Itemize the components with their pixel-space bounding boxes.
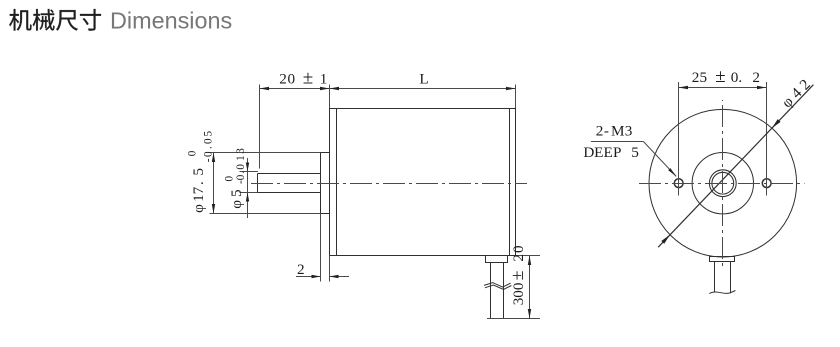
- arrow dia17.5 top: [212, 153, 215, 163]
- dim L right extension line: [515, 85, 517, 109]
- dim 25+-0.2 right extension line: [766, 82, 768, 196]
- svg-text:φ17.5: φ17.5: [190, 168, 207, 213]
- title CJK 机械尺寸: [9, 9, 101, 31]
- dim 20+-1 dimension line: [260, 88, 330, 90]
- front view arrowheads: [661, 86, 780, 244]
- front cable right edge: [730, 262, 732, 294]
- dia42 diagonal leader line: [658, 85, 813, 248]
- dia17.5 bottom extension line: [210, 213, 321, 215]
- dia17.5 dimension line: [213, 153, 215, 214]
- shaft ring inner: [712, 172, 734, 194]
- side cable break mark upper: [484, 283, 511, 288]
- dim 20+-1 left extension line: [259, 85, 261, 169]
- shaft ring outer: [709, 170, 736, 197]
- svg-text:-0.013: -0.013: [235, 148, 247, 184]
- side cable connector block: [486, 256, 508, 263]
- dim 2 left extension line: [320, 214, 322, 282]
- dia5 dimension line: [247, 158, 249, 218]
- svg-text:2: 2: [297, 261, 305, 278]
- svg-text:Dimensions: Dimensions: [110, 8, 232, 34]
- arrow dia5 top outside: [246, 163, 249, 172]
- side view center line: [251, 183, 527, 185]
- boss bottom edge: [321, 213, 330, 215]
- dim 300+-20 bottom extension line and cable end: [487, 318, 540, 320]
- dim 25+-0.2 dimension line: [679, 87, 767, 89]
- svg-text:-0.05: -0.05: [203, 130, 215, 162]
- svg-text:0: 0: [186, 150, 198, 156]
- dia5 bottom extension line: [240, 192, 259, 194]
- front cable break wave: [709, 291, 735, 294]
- arrow 300+-20 top: [528, 256, 531, 266]
- shaft bottom line: [258, 192, 321, 194]
- arrow L left: [330, 87, 340, 90]
- right M3 hole: [762, 179, 771, 188]
- svg-text:300±20: 300±20: [507, 245, 527, 305]
- arrow dia17.5 bottom: [212, 204, 215, 214]
- arrow 25+-0.2 left: [679, 86, 689, 89]
- svg-text:DEEP5: DEEP5: [583, 144, 638, 161]
- arrow 2-M3 leader: [668, 168, 676, 176]
- 2-M3 leader underline: [591, 141, 644, 143]
- arrow dim2 left outside: [312, 275, 321, 278]
- dim 2 right extension line: [329, 256, 331, 282]
- arrow dia42 lower-left pointing up-right: [661, 235, 670, 244]
- dim 300+-20 top extension line: [516, 255, 541, 257]
- left M3 hole: [674, 179, 683, 188]
- arrow dia5 bottom outside: [246, 193, 249, 202]
- side cable break mark lower: [485, 285, 512, 290]
- shaft end face: [257, 174, 259, 193]
- shaft top line: [258, 173, 321, 175]
- svg-text:2-M3: 2-M3: [596, 123, 633, 140]
- dim 300+-20 dimension line: [529, 256, 531, 319]
- outer circle dia42: [649, 109, 797, 257]
- side cable left edge: [490, 263, 492, 319]
- front horizontal center line: [639, 183, 805, 185]
- arrow dia42 upper-right pointing down-left: [772, 119, 781, 128]
- arrow L right: [506, 87, 516, 90]
- dim 2 dimension line left tail: [296, 276, 321, 278]
- 2-M3 leader diagonal: [643, 142, 676, 177]
- front cable connector block: [710, 257, 735, 262]
- boss circle dia17.5: [692, 153, 753, 214]
- dim 20+-1 right extension line: [329, 85, 331, 109]
- side cable right edge: [503, 263, 505, 319]
- motor body outline: [330, 109, 516, 256]
- svg-text:20±1: 20±1: [279, 68, 327, 89]
- arrow 25+-0.2 right: [757, 86, 767, 89]
- dia17.5 top extension line: [210, 152, 321, 154]
- svg-text:0: 0: [224, 176, 236, 182]
- front cable left edge: [714, 262, 716, 293]
- front vertical center line: [722, 100, 724, 268]
- boss top edge: [321, 152, 330, 154]
- right end-cap line: [509, 109, 511, 256]
- dia5 top extension line: [240, 171, 259, 173]
- dim 25+-0.2 left extension line: [678, 82, 680, 196]
- svg-text:L: L: [419, 71, 428, 88]
- left end-cap line: [336, 109, 338, 256]
- arrow 20+-1 left: [260, 87, 270, 90]
- boss front face: [320, 153, 322, 214]
- arrow 300+-20 bottom: [528, 309, 531, 319]
- dim L dimension line: [330, 88, 516, 90]
- arrow 20+-1 right: [320, 87, 330, 90]
- arrow dim2 right outside: [330, 275, 339, 278]
- dim 2 dimension line right tail: [330, 276, 350, 278]
- side view arrowheads: [212, 87, 531, 319]
